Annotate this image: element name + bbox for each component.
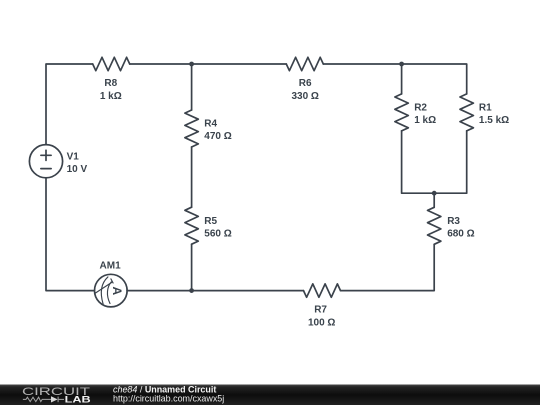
CircuitLab logo diode triangle: [51, 396, 58, 402]
svg-text:R7: R7: [314, 304, 327, 315]
wire R5 to node D: [191, 244, 193, 290]
wire R7 to node D: [192, 290, 304, 292]
svg-text:LAB: LAB: [65, 395, 91, 405]
svg-text:330 Ω: 330 Ω: [291, 91, 318, 102]
resistor R7: [304, 284, 341, 297]
svg-text:http://circuitlab.com/cxawx5j: http://circuitlab.com/cxawx5j: [113, 394, 224, 404]
CircuitLab logo resistor-diode line: [23, 397, 64, 403]
resistor R2: [395, 94, 408, 131]
wire R1 bottom to node C: [434, 131, 467, 193]
wire AM1 left to V1 bottom: [46, 178, 95, 291]
svg-text:AM1: AM1: [100, 260, 122, 271]
wire node B to R1 top: [402, 64, 467, 94]
wire R4 to R5: [191, 147, 193, 207]
svg-text:R3: R3: [447, 216, 460, 227]
node B junction: [399, 62, 404, 67]
svg-text:R5: R5: [204, 216, 217, 227]
resistor R8: [93, 57, 130, 70]
voltage source V1: [29, 145, 62, 178]
node C junction: [432, 191, 437, 196]
wire top-left: V1 top to R8: [46, 64, 93, 145]
node D junction: [189, 288, 194, 293]
wire node D to AM1 right: [127, 290, 192, 292]
svg-text:R8: R8: [104, 78, 117, 89]
resistor R3: [428, 207, 441, 244]
resistor R6: [286, 57, 323, 70]
wire R3 bottom to R7: [341, 244, 435, 290]
svg-text:R1: R1: [479, 103, 492, 114]
svg-text:100 Ω: 100 Ω: [308, 318, 335, 329]
wire node C to R3: [433, 193, 435, 207]
wire R8 to node A: [130, 63, 192, 65]
svg-text:V1: V1: [67, 152, 80, 163]
svg-text:R4: R4: [204, 119, 217, 130]
resistor R5: [185, 207, 198, 244]
svg-text:680 Ω: 680 Ω: [447, 229, 474, 240]
node A junction: [189, 62, 194, 67]
wire node A to R6: [192, 63, 287, 65]
svg-text:1 kΩ: 1 kΩ: [100, 91, 122, 102]
ammeter AM1: [95, 274, 128, 307]
wire R6 to node B: [323, 63, 401, 65]
svg-text:10 V: 10 V: [67, 164, 88, 175]
svg-text:R6: R6: [299, 78, 312, 89]
svg-text:560 Ω: 560 Ω: [204, 228, 231, 239]
wire node B down to R2: [401, 64, 403, 94]
resistor R4: [185, 110, 198, 147]
svg-text:R2: R2: [414, 103, 427, 114]
wire R2 bottom to node C: [402, 131, 435, 193]
resistor R1: [460, 94, 473, 131]
svg-text:1.5 kΩ: 1.5 kΩ: [479, 115, 509, 126]
svg-text:1 kΩ: 1 kΩ: [414, 115, 436, 126]
svg-text:470 Ω: 470 Ω: [204, 131, 231, 142]
svg-text:A: A: [110, 286, 124, 295]
wire node A down to R4: [191, 64, 193, 110]
